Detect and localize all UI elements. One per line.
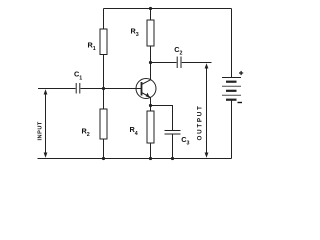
input port arrow xyxy=(44,89,48,157)
svg-text:R1: R1 xyxy=(88,40,96,52)
label battery plus xyxy=(239,71,243,75)
node collector/C2 junction xyxy=(149,61,152,64)
wire base node to R2 xyxy=(103,89,105,110)
resistor R1 xyxy=(100,29,107,55)
svg-text:R3: R3 xyxy=(131,26,139,38)
capacitor C1 xyxy=(76,83,80,94)
wire emitter node to C3 xyxy=(151,106,173,131)
wire C2 to output xyxy=(182,62,212,64)
output port arrow xyxy=(205,63,209,157)
wire R1 bottom to base node xyxy=(103,55,105,89)
svg-text:R4: R4 xyxy=(130,125,138,137)
label battery minus xyxy=(238,102,243,104)
wire battery bottom lead xyxy=(231,100,233,159)
node C3 ground junction xyxy=(171,157,174,160)
resistor R4 xyxy=(147,111,154,143)
wire bottom ground rail xyxy=(38,158,232,160)
wire collector node to C2 xyxy=(151,62,177,64)
node base junction xyxy=(102,87,105,90)
wire R3 bottom to collector node xyxy=(150,46,152,63)
node R3 top rail junction xyxy=(149,7,152,10)
transistor Q1 xyxy=(136,79,156,99)
wire C3 to ground xyxy=(172,134,174,159)
capacitor C3 xyxy=(165,131,181,135)
wire R2 bottom lead xyxy=(103,139,105,159)
capacitor C2 xyxy=(177,57,181,69)
node R4 ground junction xyxy=(149,157,152,160)
wire R3 top lead xyxy=(150,9,152,21)
svg-text:R2: R2 xyxy=(82,126,90,138)
node R2 ground junction xyxy=(102,157,105,160)
wire collector node to transistor xyxy=(150,63,152,81)
wire R1 top lead xyxy=(103,9,105,30)
svg-text:C2: C2 xyxy=(174,45,182,57)
wire emitter to emitter node xyxy=(150,97,152,105)
svg-text:INPUT: INPUT xyxy=(38,121,44,140)
svg-text:C3: C3 xyxy=(181,135,189,147)
wire battery top lead xyxy=(231,9,233,78)
wire emitter node to R4 xyxy=(150,106,152,112)
resistor R3 xyxy=(147,20,154,46)
resistor R2 xyxy=(100,109,107,139)
wire top supply rail xyxy=(104,8,232,10)
wire C1 to base xyxy=(81,88,142,90)
node emitter junction xyxy=(149,104,152,107)
battery B1 xyxy=(222,78,241,100)
svg-text:OUTPUT: OUTPUT xyxy=(197,104,204,140)
wire input top lead xyxy=(38,88,76,90)
svg-text:C1: C1 xyxy=(74,69,82,81)
wire R4 bottom lead xyxy=(150,143,152,159)
